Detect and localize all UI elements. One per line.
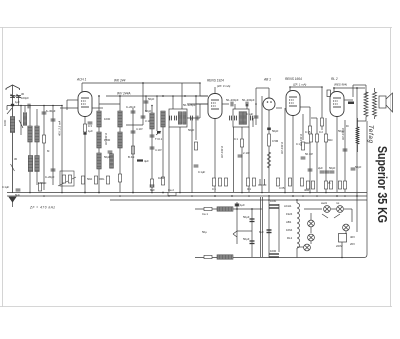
svg-text:50pF: 50pF bbox=[272, 129, 279, 133]
svg-text:(ZF: 1 mA): (ZF: 1 mA) bbox=[293, 83, 306, 87]
svg-text:0.05: 0.05 bbox=[279, 186, 285, 190]
svg-text:(RES 964): (RES 964) bbox=[334, 83, 347, 87]
svg-text:50–125pF: 50–125pF bbox=[183, 103, 196, 107]
svg-text:2·10³: 2·10³ bbox=[243, 151, 250, 155]
svg-text:50µ: 50µ bbox=[202, 230, 207, 234]
svg-text:8µF: 8µF bbox=[150, 188, 155, 192]
svg-text:1664: 1664 bbox=[286, 228, 293, 232]
svg-text:AB 1: AB 1 bbox=[263, 78, 271, 82]
svg-text:RL2: RL2 bbox=[287, 236, 293, 240]
svg-text:4·10³: 4·10³ bbox=[155, 148, 162, 152]
svg-text:50–200pF: 50–200pF bbox=[242, 98, 255, 102]
svg-text:0.1µF: 0.1µF bbox=[2, 185, 9, 189]
svg-text:4·10³: 4·10³ bbox=[136, 127, 143, 131]
svg-text:20V: 20V bbox=[350, 242, 355, 246]
svg-text:50pF: 50pF bbox=[188, 128, 195, 132]
svg-text:ZF = 470 kHz: ZF = 470 kHz bbox=[29, 206, 55, 210]
svg-text:0–20pF: 0–20pF bbox=[45, 175, 55, 179]
svg-text:6–30pF: 6–30pF bbox=[46, 109, 56, 113]
svg-text:WK 244: WK 244 bbox=[114, 79, 126, 83]
svg-text:0.5M: 0.5M bbox=[272, 139, 279, 143]
svg-text:AB1: AB1 bbox=[286, 220, 292, 224]
svg-text:4µF: 4µF bbox=[144, 159, 149, 163]
svg-text:1000: 1000 bbox=[270, 199, 277, 203]
svg-text:220V: 220V bbox=[336, 244, 343, 248]
svg-text:RV 244 A: RV 244 A bbox=[280, 142, 284, 154]
svg-text:50pF: 50pF bbox=[338, 129, 345, 133]
svg-text:1µF: 1µF bbox=[88, 129, 93, 133]
svg-text:B 4Ω: B 4Ω bbox=[128, 155, 134, 159]
svg-text:0.1: 0.1 bbox=[212, 187, 216, 191]
svg-text:100pF: 100pF bbox=[21, 96, 29, 100]
svg-text:1000: 1000 bbox=[3, 119, 7, 126]
svg-text:ACH1: ACH1 bbox=[284, 204, 292, 208]
svg-text:MΩ: MΩ bbox=[305, 141, 309, 145]
svg-text:0–20pF: 0–20pF bbox=[126, 105, 136, 109]
svg-text:8µF: 8µF bbox=[15, 193, 20, 197]
svg-text:T=0.1: T=0.1 bbox=[155, 137, 163, 141]
svg-text:0.15: 0.15 bbox=[305, 130, 311, 134]
svg-text:RV 244 A: RV 244 A bbox=[104, 133, 108, 145]
svg-text:0.1µF: 0.1µF bbox=[198, 170, 205, 174]
svg-text:30: 30 bbox=[14, 157, 18, 161]
svg-text:1924: 1924 bbox=[286, 212, 293, 216]
svg-text:RRL: RRL bbox=[99, 177, 105, 181]
svg-text:50pF: 50pF bbox=[148, 97, 155, 101]
svg-text:1000: 1000 bbox=[104, 117, 111, 121]
svg-text:50–200pF: 50–200pF bbox=[226, 98, 239, 102]
svg-text:RENS 1924: RENS 1924 bbox=[207, 79, 224, 83]
svg-text:1MΩ: 1MΩ bbox=[158, 176, 164, 180]
svg-text:RV 244 A: RV 244 A bbox=[220, 146, 224, 158]
svg-text:50Ω: 50Ω bbox=[87, 177, 92, 181]
svg-text:50pF: 50pF bbox=[329, 166, 336, 170]
svg-text:0.2: 0.2 bbox=[319, 130, 323, 134]
svg-text:ACH 1: ACH 1 bbox=[76, 78, 87, 82]
svg-text:40Ω: 40Ω bbox=[304, 188, 309, 192]
svg-text:RL 2: RL 2 bbox=[331, 77, 338, 81]
svg-text:WV 244A: WV 244A bbox=[117, 92, 130, 96]
svg-text:Ca 1: Ca 1 bbox=[202, 212, 208, 216]
svg-text:weiß: weiß bbox=[321, 201, 327, 205]
svg-text:50pF: 50pF bbox=[104, 155, 111, 159]
svg-text:1µF: 1µF bbox=[15, 100, 20, 104]
svg-text:RV 244 A: RV 244 A bbox=[299, 134, 303, 146]
svg-text:0.1µF: 0.1µF bbox=[246, 112, 253, 116]
svg-text:1000: 1000 bbox=[270, 249, 277, 253]
svg-text:50µF: 50µF bbox=[243, 215, 250, 219]
svg-text:Dr: Dr bbox=[346, 124, 349, 128]
svg-text:2µF: 2µF bbox=[318, 166, 323, 170]
svg-text:40V: 40V bbox=[350, 235, 355, 239]
svg-text:8µF: 8µF bbox=[259, 230, 264, 234]
svg-text:50·10³: 50·10³ bbox=[305, 152, 313, 156]
svg-text:50µF: 50µF bbox=[243, 237, 250, 241]
svg-text:RENS 1664: RENS 1664 bbox=[285, 77, 302, 81]
svg-text:0.1: 0.1 bbox=[234, 137, 238, 141]
svg-text:1µF: 1µF bbox=[240, 203, 245, 207]
svg-text:50pF: 50pF bbox=[355, 165, 362, 169]
svg-text:rot: rot bbox=[336, 201, 339, 205]
svg-text:0.1: 0.1 bbox=[247, 187, 251, 191]
svg-text:MΩ: MΩ bbox=[328, 138, 332, 142]
svg-text:(ZF: 0 mA): (ZF: 0 mA) bbox=[217, 84, 230, 88]
svg-text:0.3: 0.3 bbox=[88, 124, 92, 128]
svg-text:Ca 2: Ca 2 bbox=[168, 188, 174, 192]
svg-text:Tefag: Tefag bbox=[367, 125, 374, 144]
svg-text:1.5MΩ: 1.5MΩ bbox=[38, 181, 46, 185]
svg-text:Superior 35 KG: Superior 35 KG bbox=[375, 146, 389, 223]
svg-text:40V, 2.5 mA: 40V, 2.5 mA bbox=[58, 121, 62, 136]
